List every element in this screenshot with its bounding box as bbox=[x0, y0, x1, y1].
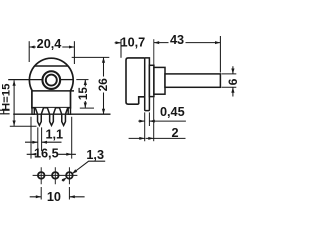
arrowhead 15 bottom bbox=[84, 103, 87, 108]
bushing outer circle bbox=[42, 71, 60, 89]
arrowhead 0,45 right bbox=[149, 120, 154, 123]
arrowhead 1,1 right bbox=[42, 141, 47, 144]
svg-text:26: 26 bbox=[97, 78, 110, 92]
arrowhead 1,1 left bbox=[32, 141, 37, 144]
arrowhead 20,4 left bbox=[29, 46, 34, 49]
dimension 16,5 line bbox=[27, 153, 76, 155]
front-view left side line (shaft center height) bbox=[8, 79, 42, 81]
side-view body notch bbox=[139, 97, 145, 104]
svg-text:10,7: 10,7 bbox=[121, 35, 146, 49]
dimension 15 top extension bbox=[76, 79, 88, 81]
dimension 2 line bbox=[129, 137, 186, 139]
dimension 1,1 line bbox=[25, 141, 62, 143]
dimension 10,7 left stub bbox=[115, 42, 121, 44]
side-view terminal plate bbox=[145, 58, 150, 111]
dimension 20,4 line bbox=[29, 46, 74, 48]
arrowhead 1,3 far bbox=[62, 177, 67, 181]
svg-text:16,5: 16,5 bbox=[34, 147, 59, 161]
svg-text:20,4: 20,4 bbox=[37, 37, 62, 51]
arrowhead 43 right bbox=[215, 41, 220, 44]
left edge element lower line bbox=[0, 113, 10, 115]
arrowhead 20,4 right bbox=[69, 46, 74, 49]
dimension 26 top extension bbox=[72, 56, 110, 58]
dimension 43 line bbox=[154, 42, 221, 44]
svg-text:1,1: 1,1 bbox=[45, 127, 63, 141]
dimension 1,1 extension lines bbox=[38, 127, 42, 151]
hole 1 bbox=[38, 172, 45, 179]
svg-text:15: 15 bbox=[77, 87, 90, 101]
dimension 6 line bbox=[232, 66, 234, 96]
arrowhead 26 top bbox=[102, 57, 105, 62]
pin 2 bbox=[47, 108, 55, 126]
arrowhead 16,5 left bbox=[31, 153, 36, 156]
arrowhead 15 top bbox=[84, 80, 87, 85]
dimension 0,45 extension lines bbox=[145, 112, 150, 141]
pin 3 bbox=[60, 108, 68, 126]
dimension 2 right extension bbox=[153, 97, 155, 141]
hole 2 bbox=[52, 172, 59, 179]
dimension 1,3 leader bbox=[72, 161, 105, 173]
arrowhead 6 top bbox=[231, 69, 234, 74]
hole centerline ticks bbox=[41, 167, 69, 184]
arrowhead 0,45 left bbox=[139, 120, 144, 123]
arrowhead 43 left bbox=[154, 41, 159, 44]
dimension 26 line bbox=[103, 57, 105, 114]
dimension 10,7/43 shared extension bbox=[153, 39, 155, 65]
svg-text:10: 10 bbox=[47, 190, 61, 204]
dimension 20,4 extension right bbox=[73, 41, 75, 64]
arrowhead 2 first bbox=[139, 137, 144, 140]
dimension H=15 bottom extension bbox=[10, 125, 37, 127]
arrowhead 16,5 right bbox=[66, 153, 71, 156]
svg-text:2: 2 bbox=[171, 126, 178, 140]
dimension 43 extension right bbox=[219, 36, 221, 73]
dimension 0,45 left stub bbox=[138, 120, 144, 122]
arrowhead 10 right bbox=[69, 195, 74, 198]
dimension 10 line bbox=[30, 196, 85, 198]
dimension 6 extension lines bbox=[222, 74, 237, 87]
front-view body rectangle bbox=[32, 91, 71, 108]
dimension 15 bottom extension bbox=[80, 107, 94, 109]
front-view body shoulder line bbox=[32, 90, 74, 92]
svg-text:1,3: 1,3 bbox=[86, 148, 104, 162]
arrowhead 6 bottom bbox=[231, 87, 234, 92]
svg-text:6: 6 bbox=[226, 78, 239, 85]
side-view bushing bbox=[154, 67, 165, 94]
left edge element tick bbox=[3, 110, 5, 114]
dimension 0,45 right line bbox=[149, 120, 186, 122]
svg-text:43: 43 bbox=[170, 33, 184, 47]
holes centerline bbox=[33, 174, 78, 176]
left mounting tab bbox=[32, 108, 34, 115]
dimension 16,5 extension lines bbox=[31, 117, 72, 159]
dimension 20,4 extension left bbox=[28, 41, 30, 62]
dimension 1,3 far arrow tail bbox=[62, 179, 65, 181]
arrowhead 26 bottom bbox=[102, 109, 105, 114]
right mounting tab bbox=[68, 108, 70, 115]
arrowhead H=15 top bbox=[13, 80, 16, 85]
front-view cover chord line bbox=[35, 65, 68, 67]
arrowhead 2 second bbox=[148, 137, 153, 140]
dimension 15 line bbox=[84, 80, 86, 108]
arrowhead 1,3 near bbox=[72, 169, 77, 173]
dimension 10 extension lines bbox=[41, 187, 69, 200]
shaft bbox=[165, 74, 220, 87]
arrowhead 10 left bbox=[36, 195, 41, 198]
pin 1 bbox=[35, 108, 43, 126]
front-view body circle bbox=[29, 58, 73, 91]
arrowhead H=15 bottom bbox=[13, 121, 16, 126]
front-view right side line bbox=[60, 79, 73, 81]
dimension 10,7 extension left bbox=[120, 39, 122, 58]
seating plane line bbox=[13, 113, 110, 115]
bushing inner circle bbox=[46, 75, 57, 86]
left edge element upper line bbox=[0, 109, 10, 111]
dimension H=15 line bbox=[13, 80, 15, 126]
side-view body outline bbox=[126, 58, 145, 104]
side-view collar bbox=[149, 65, 154, 96]
arrowhead 10,7 left bbox=[116, 41, 121, 44]
svg-text:H=15: H=15 bbox=[1, 83, 13, 111]
hole 3 bbox=[66, 172, 73, 179]
svg-text:0,45: 0,45 bbox=[160, 105, 185, 119]
